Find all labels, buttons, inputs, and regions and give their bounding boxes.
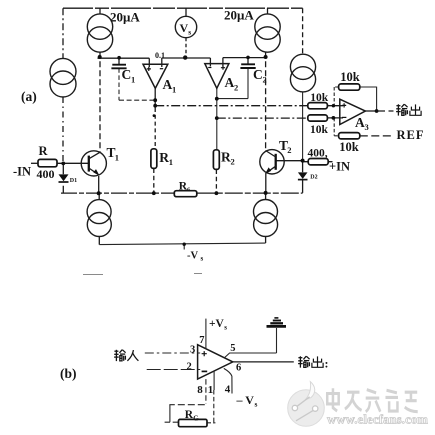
svg-text:1: 1 [131, 75, 135, 85]
svg-text:R: R [221, 149, 231, 164]
svg-text:G: G [193, 414, 199, 422]
svg-text:A: A [163, 77, 173, 92]
svg-text:10k: 10k [310, 124, 329, 136]
svg-text::: : [325, 357, 329, 371]
svg-text:C: C [122, 67, 132, 82]
svg-text:(b): (b) [60, 366, 77, 381]
svg-text:1: 1 [172, 84, 176, 94]
svg-text:5: 5 [230, 343, 235, 354]
svg-text:2: 2 [187, 361, 192, 372]
svg-text:V: V [180, 21, 189, 35]
svg-text:D1: D1 [70, 178, 77, 184]
svg-text:400: 400 [37, 167, 55, 181]
svg-text:1: 1 [169, 157, 173, 167]
svg-text:s: s [201, 255, 204, 263]
svg-text:www.elecfans.com: www.elecfans.com [327, 413, 428, 427]
svg-text:7: 7 [199, 335, 204, 346]
svg-text:s: s [255, 399, 258, 408]
svg-text:20μA: 20μA [224, 8, 254, 23]
svg-text:C: C [253, 67, 263, 82]
svg-text:400,: 400, [308, 148, 328, 160]
svg-text:s: s [224, 323, 227, 331]
svg-text:REF: REF [397, 128, 425, 142]
svg-text:A: A [225, 75, 235, 90]
svg-text:s: s [188, 27, 191, 36]
svg-text:2: 2 [263, 75, 267, 85]
svg-text:20μA: 20μA [110, 10, 140, 25]
svg-text:2: 2 [234, 82, 238, 92]
svg-text:– V: – V [236, 393, 255, 407]
svg-text:3: 3 [190, 345, 195, 356]
svg-text:R: R [159, 150, 169, 165]
svg-text:A: A [355, 115, 365, 130]
svg-text:-IN: -IN [13, 165, 31, 179]
svg-text:2: 2 [231, 157, 235, 167]
svg-text:4: 4 [225, 383, 231, 395]
svg-text:1: 1 [208, 384, 214, 396]
svg-text:+V: +V [209, 318, 225, 330]
svg-text:R: R [39, 144, 49, 158]
svg-text:6: 6 [236, 362, 241, 373]
svg-text:2: 2 [287, 145, 291, 155]
svg-text:10k: 10k [310, 92, 329, 104]
svg-text:(a): (a) [21, 89, 37, 104]
svg-text:3: 3 [365, 122, 369, 132]
svg-text:1: 1 [115, 152, 119, 162]
svg-text:-V: -V [187, 251, 198, 262]
svg-text:10k: 10k [339, 140, 359, 154]
svg-text:8: 8 [197, 384, 203, 396]
svg-text:0.1: 0.1 [155, 51, 165, 60]
svg-text:+IN: +IN [329, 160, 350, 174]
svg-text:10k: 10k [340, 70, 360, 84]
svg-text:D2: D2 [310, 174, 317, 180]
